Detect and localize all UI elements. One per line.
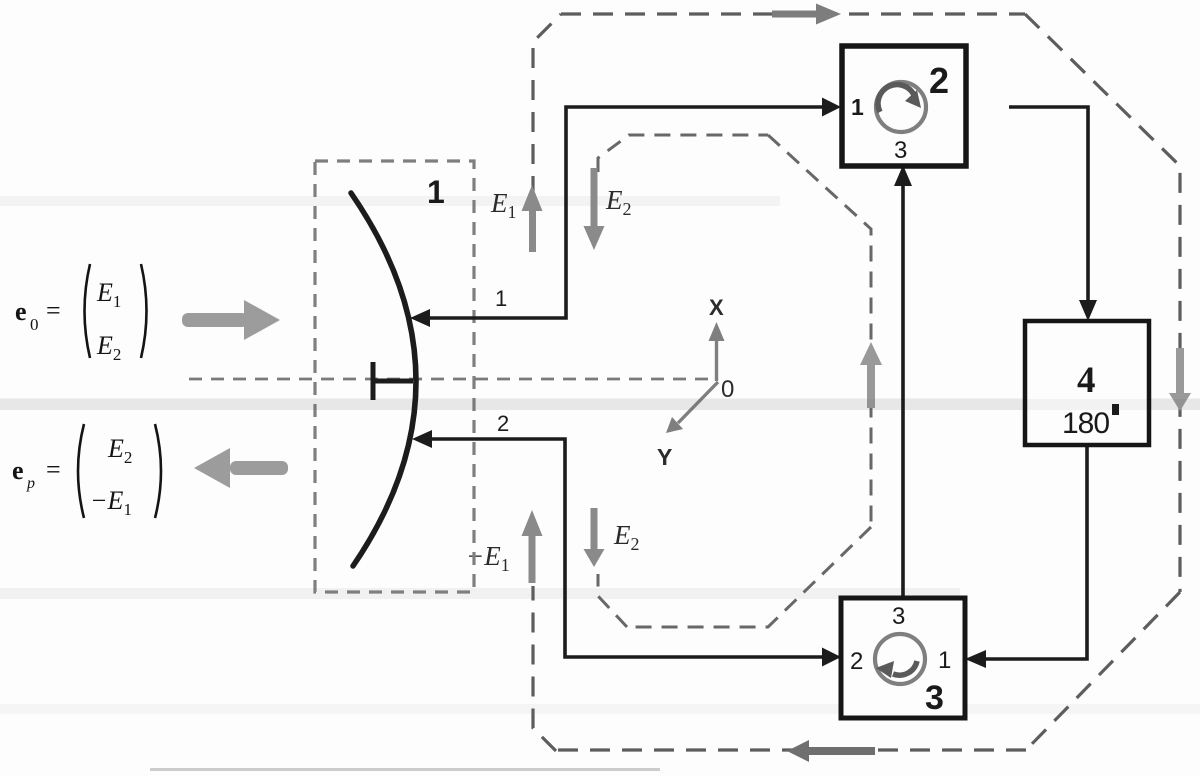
svg-text:e: e [15, 297, 27, 326]
svg-text:1: 1 [495, 286, 507, 311]
inner dashed path left lower stub [598, 574, 627, 627]
circulator box 3 [841, 598, 965, 718]
gray arrow left on bottom dashed path [787, 740, 875, 762]
outer dashed path right segment [1025, 14, 1180, 592]
svg-text:2: 2 [850, 648, 863, 675]
inner dashed path right segment [768, 135, 871, 527]
inner dashed path bottom segment [627, 527, 871, 627]
inner dashed path top segment [598, 135, 768, 172]
gray arrow right on top dashed path [772, 4, 841, 25]
svg-text:=: = [46, 455, 61, 484]
wire phase shifter 4 to circulator3 port1 [975, 446, 1087, 659]
arrow E2 down on inner left path (lower) [584, 508, 605, 567]
equation ep = (E2 -E1) [12, 424, 161, 519]
svg-text:2: 2 [929, 60, 949, 101]
scan background bands [0, 196, 1200, 771]
svg-text:E1: E1 [96, 278, 121, 311]
svg-text:E2: E2 [605, 185, 632, 219]
svg-text:1: 1 [938, 647, 951, 674]
svg-text:E2: E2 [107, 434, 132, 467]
gray arrow down on outer right path [1169, 348, 1191, 411]
arrow E2 down on inner left path (upper) [584, 168, 605, 250]
reflector arc [351, 193, 416, 566]
antenna unit dashed box 1 [315, 161, 474, 592]
wire circulator3 port3 to circulator2 port3 [901, 176, 905, 596]
svg-text:180: 180 [1062, 407, 1109, 440]
svg-text:−E1: −E1 [90, 486, 132, 519]
feed element [371, 362, 413, 400]
outer dashed path bottom segment [556, 748, 1026, 751]
svg-text:e: e [12, 456, 24, 485]
reflected wave gray arrow [194, 448, 288, 488]
svg-text:E1: E1 [490, 188, 517, 222]
svg-text:1: 1 [851, 94, 864, 120]
outer dashed path left upper segment [533, 14, 561, 196]
svg-text:4: 4 [1077, 360, 1096, 401]
svg-text:2: 2 [497, 411, 509, 436]
scan streak overlay [0, 399, 1200, 410]
incident wave gray arrow [182, 300, 280, 340]
gray arrow up on inner right path [860, 342, 882, 408]
outer dashed feedback path [533, 14, 1180, 751]
svg-text:0: 0 [30, 315, 39, 334]
svg-text:X: X [709, 295, 724, 320]
equation e0 = (E1 E2) [15, 264, 147, 364]
wire port2: reflector to circulator 3 port 2 [423, 439, 830, 657]
svg-text:E2: E2 [613, 520, 640, 554]
svg-text:3: 3 [925, 679, 944, 717]
arrow E1 up on outer left path [522, 185, 543, 252]
svg-text:3: 3 [892, 603, 905, 630]
outer dashed path top segment [561, 12, 1025, 15]
optical axis dashed line [189, 378, 718, 381]
svg-text:E2: E2 [96, 331, 121, 364]
coordinate axes: X up, Y diagonal, origin 0 [666, 322, 725, 433]
outer dashed path bottom-right diagonal [1026, 592, 1180, 750]
circulator box 2 [842, 46, 966, 166]
wire port1: reflector to circulator 2 port 1 [421, 107, 830, 318]
phase shifter box 4 [1025, 321, 1149, 445]
inner dashed path [598, 135, 871, 627]
svg-text:p: p [26, 475, 35, 492]
circulator 2 rotation symbol [876, 82, 926, 132]
svg-text:=: = [46, 296, 61, 325]
svg-text:0: 0 [721, 376, 734, 403]
svg-text:1: 1 [427, 174, 445, 210]
wire circulator2 port2 to phase shifter 4 [1009, 107, 1088, 312]
circulator 3 rotation symbol [875, 634, 925, 684]
svg-text:Y: Y [657, 444, 672, 470]
outer dashed path left lower segment [533, 586, 556, 751]
svg-text:3: 3 [894, 137, 907, 164]
arrow -E1 up on outer left path (lower) [522, 510, 543, 583]
